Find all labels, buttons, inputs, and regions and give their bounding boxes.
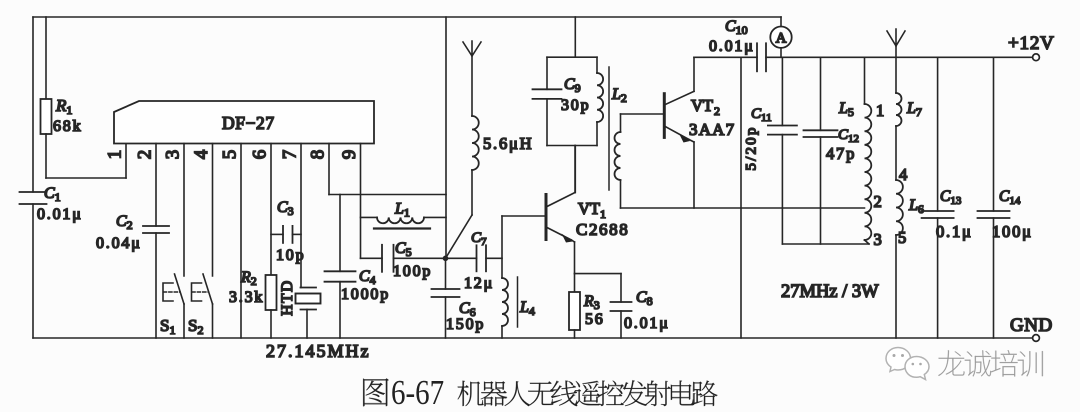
svg-text:1: 1 (876, 101, 886, 120)
svg-text:5.6μH: 5.6μH (483, 134, 533, 153)
svg-text:C1: C1 (44, 185, 61, 204)
svg-text:9: 9 (339, 150, 360, 160)
inductor L1 (361, 201, 447, 229)
inductor L7 (896, 93, 922, 126)
capacitor C5 (361, 240, 443, 280)
wire left border upper segment (32, 17, 34, 192)
svg-text:C2: C2 (116, 213, 133, 232)
capacitor C12 (804, 57, 860, 244)
svg-text:10p: 10p (276, 247, 305, 264)
resistor R3 (569, 274, 605, 338)
pin numbers 1-9 (104, 149, 360, 159)
svg-text:S1: S1 (160, 316, 175, 337)
svg-text:C8: C8 (636, 289, 653, 308)
svg-text:2: 2 (134, 150, 155, 160)
svg-text:3AA7: 3AA7 (689, 120, 735, 139)
inductor L3 secondary (615, 114, 621, 208)
capacitor C4 (325, 195, 391, 339)
wire tank feed (574, 17, 576, 57)
svg-text:47p: 47p (826, 144, 856, 163)
wire pin 9 (360, 144, 362, 259)
wire R1 to pin 1 (46, 144, 126, 179)
wire antenna to node (446, 170, 473, 258)
svg-text:7: 7 (279, 150, 300, 160)
wire pin 5 (240, 144, 242, 339)
svg-text:R2: R2 (240, 269, 257, 288)
svg-text:L7: L7 (906, 100, 922, 119)
svg-text:0.01μ: 0.01μ (624, 315, 670, 332)
transistor VT2 (664, 57, 735, 208)
svg-text:3: 3 (162, 150, 183, 160)
svg-text:5: 5 (219, 150, 240, 160)
wire pin 3 (183, 144, 185, 277)
svg-text:C13: C13 (940, 188, 962, 207)
wire collector feed (574, 146, 576, 193)
resistor R1 (41, 17, 83, 178)
svg-text:R1: R1 (55, 96, 72, 117)
ammeter A (770, 17, 791, 57)
label 27MHz/3W (781, 282, 879, 302)
wire rail right (766, 56, 1033, 58)
capacitor C13 (922, 57, 973, 338)
capacitor C7 (449, 230, 502, 292)
svg-text:C14: C14 (999, 188, 1021, 207)
svg-text:C7: C7 (471, 230, 487, 248)
wire L7-L6 (896, 126, 909, 184)
svg-text:3: 3 (874, 230, 884, 249)
svg-text:1: 1 (104, 150, 125, 160)
svg-text:C3: C3 (277, 199, 294, 218)
svg-text:68k: 68k (53, 118, 82, 135)
wire node A horizontal (329, 194, 446, 196)
svg-text:6-67: 6-67 (391, 372, 444, 411)
resistor R2 (229, 269, 277, 338)
svg-text:GND: GND (1010, 315, 1053, 336)
svg-text:HTD: HTD (279, 279, 296, 315)
svg-text:C12: C12 (838, 127, 859, 145)
svg-text:150p: 150p (446, 316, 485, 333)
svg-text:L1: L1 (394, 201, 410, 220)
wire ground bus (33, 337, 1033, 339)
op-amp U1 DF-27 IC body (114, 101, 374, 144)
wire tank bottom (782, 243, 869, 245)
svg-text:S2: S2 (188, 316, 203, 337)
svg-text:A: A (776, 31, 787, 47)
svg-text:VT: VT (691, 96, 713, 115)
inductor L4 (502, 277, 535, 338)
svg-text:27.145MHz: 27.145MHz (266, 341, 371, 361)
node junction dot (442, 255, 449, 261)
wire pin 8 (328, 144, 330, 195)
svg-text:1000p: 1000p (341, 286, 390, 303)
crystal HTD (279, 279, 320, 338)
wire pin 6 (270, 144, 272, 276)
antenna A1 (463, 41, 481, 116)
capacitor C9 tank (533, 57, 598, 145)
svg-text:C5: C5 (395, 240, 412, 259)
inductor 5.6uH (472, 116, 533, 170)
svg-text:L4: L4 (519, 299, 535, 318)
capacitor C11 (743, 57, 796, 244)
terminal +12V (1008, 33, 1055, 61)
svg-text:0.04μ: 0.04μ (96, 235, 142, 252)
svg-text:0.01μ: 0.01μ (709, 38, 755, 55)
svg-text:5: 5 (898, 228, 908, 247)
svg-text:3.3k: 3.3k (229, 289, 264, 306)
wire emitter bus (621, 207, 865, 209)
label 27.145MHz (266, 341, 371, 361)
capacitor C6 (432, 258, 486, 338)
capacitor C1 (20, 185, 83, 338)
svg-text:100μ: 100μ (992, 222, 1033, 241)
switch S2 (188, 274, 213, 338)
wire pin 4 (212, 144, 214, 277)
inductor L2 primary (597, 57, 627, 145)
svg-text:5/20p: 5/20p (743, 125, 759, 170)
svg-text:0.1μ: 0.1μ (936, 222, 973, 241)
transformer core (608, 67, 610, 190)
svg-text:C9: C9 (564, 76, 581, 95)
wire pin 7 (300, 144, 302, 288)
svg-text:0.01μ: 0.01μ (37, 206, 83, 223)
inductor L6 (896, 180, 924, 247)
wire L6 down (895, 235, 897, 338)
svg-text:L2: L2 (611, 86, 627, 105)
svg-text:2: 2 (874, 192, 884, 211)
wire emitter node (575, 273, 622, 275)
svg-text:C11: C11 (751, 106, 772, 124)
terminal GND (1010, 315, 1053, 341)
svg-text:L6: L6 (908, 197, 924, 216)
svg-text:27MHz / 3W: 27MHz / 3W (781, 282, 879, 302)
svg-text:30p: 30p (561, 97, 590, 114)
svg-text:56: 56 (585, 311, 605, 328)
svg-text:VT: VT (578, 199, 600, 218)
wire rail left (694, 56, 757, 58)
wire rail to ground x741 (740, 57, 742, 338)
wire VT1 base branch (502, 216, 545, 278)
capacitor C8 (611, 274, 670, 338)
svg-text:100p: 100p (393, 263, 432, 280)
switch S1 (160, 274, 184, 338)
wire secondary to VT2 base (621, 113, 665, 115)
wire vertical feed x446 (445, 17, 447, 255)
svg-text:C4: C4 (359, 268, 376, 287)
transistor VT1 (546, 146, 629, 274)
svg-text:R3: R3 (583, 293, 600, 312)
caption 图6-67 (363, 372, 717, 411)
wire pin 2 (155, 144, 157, 227)
svg-text:2: 2 (714, 104, 720, 118)
antenna A2 (887, 29, 905, 93)
svg-text:4: 4 (191, 149, 212, 159)
svg-text:L5: L5 (838, 100, 854, 119)
svg-text:C10: C10 (725, 18, 748, 37)
inductor L5 (838, 57, 886, 249)
svg-text:DF−27: DF−27 (222, 113, 275, 133)
svg-text:8: 8 (307, 150, 328, 160)
capacitor C10 (709, 18, 766, 71)
wire top supply rail (border) (33, 16, 781, 18)
svg-text:C2688: C2688 (576, 220, 629, 239)
capacitor C3 (271, 199, 305, 264)
capacitor C2 (96, 213, 169, 338)
svg-text:+12V: +12V (1008, 33, 1055, 54)
svg-text:1: 1 (600, 207, 606, 221)
capacitor C14 (978, 57, 1033, 338)
svg-text:12μ: 12μ (464, 275, 494, 292)
svg-text:6: 6 (249, 150, 270, 160)
watermark text (938, 350, 1043, 376)
watermark logo (886, 348, 929, 380)
